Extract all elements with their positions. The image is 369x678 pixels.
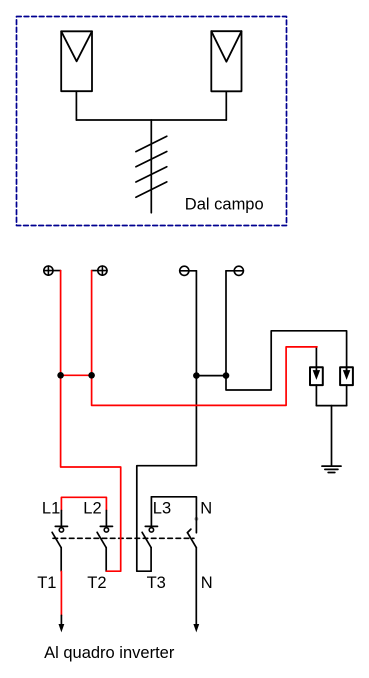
wire black bridge between strings [196,375,226,377]
junction blob pole 4 [195,517,199,521]
svg-text:T2: T2 [87,574,106,592]
PV module PV2 [211,31,241,91]
svg-text:L3: L3 [153,500,171,518]
terminal - 3 [180,266,197,275]
junction dot black 2 [223,372,230,379]
label N bottom [201,574,213,592]
switch pole 1 (L1-T1) [52,511,67,572]
cable hatch marks (4 conductors) [136,136,167,197]
switch pole 2 (L2-T2) [97,511,112,572]
label T2 [87,574,106,592]
label L3 [153,500,171,518]
svg-text:T3: T3 [147,574,166,592]
wire PV1 stem [75,91,77,120]
cable to field (vertical) [150,120,152,213]
svg-text:N: N [201,574,213,592]
label L2 [83,500,101,518]
label T1 [37,574,56,592]
junction dot red 2 [88,372,95,379]
wire T1 arrow stem [60,615,62,626]
ground [322,466,341,472]
terminal - 4 [226,266,243,275]
wire DC- string2 to SPD (black) [226,271,347,390]
terminal + 1 [44,266,61,275]
wire T1 output (red) [60,571,62,615]
junction dot black 1 [193,372,200,379]
label T3 [147,574,166,592]
switch pole 3 (L3-T3) [142,497,157,571]
arrow to inverter (left) [59,624,65,632]
svg-text:L2: L2 [83,500,101,518]
svg-text:T1: T1 [37,574,56,592]
svg-text:N: N [200,500,212,518]
wire DC- string1 (black) [137,271,197,571]
switch pole 4 (N) [187,529,196,626]
wire DC+ string1 (red) [61,271,121,572]
wire black bridge L3-N [151,497,196,533]
dashed mechanical coupling line [53,537,194,539]
label Al quadro inverter [44,644,175,662]
wire red bridge L1-L2 [61,497,106,510]
svg-text:L1: L1 [42,500,60,518]
wire red bridge between strings [61,374,92,376]
terminal + 2 [92,266,107,275]
surge arrester SPD1 [310,367,323,385]
PV module PV1 [61,31,92,91]
arrow to inverter (right) [193,624,199,632]
wire SPD1 top stub [315,347,317,371]
label N top [200,500,212,518]
label L1 [42,500,60,518]
wire DC+ string2 to SPD (red) [92,271,317,406]
svg-text:Dal campo: Dal campo [185,195,264,213]
wire string bus [76,119,226,121]
dashed field boundary box [17,17,287,226]
junction dot red 1 [57,372,64,379]
label Dal campo [185,195,264,213]
surge arrester SPD2 [340,367,353,385]
wire SPD bottoms to ground [316,385,346,466]
svg-text:Al quadro inverter: Al quadro inverter [44,644,175,662]
wire PV2 stem [225,91,227,120]
